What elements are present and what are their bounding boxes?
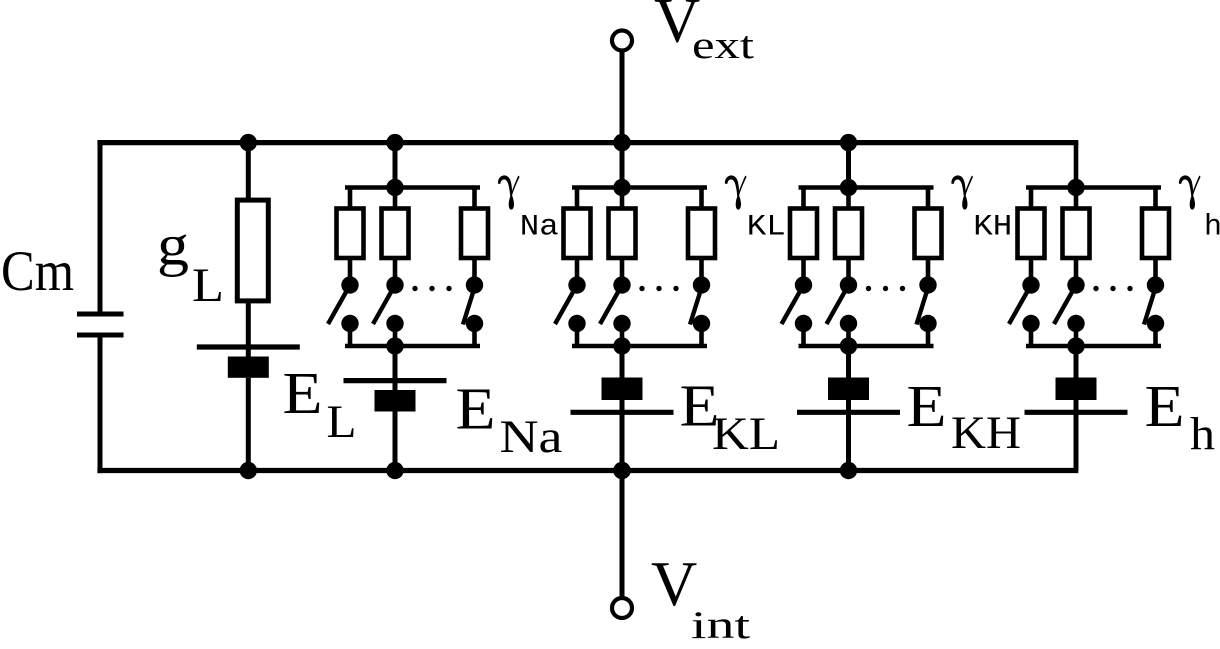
node: V_ext junction on top bus [613, 134, 630, 151]
terminal V_ext open circle [612, 31, 632, 51]
wire: V_ext terminal to top bus [620, 51, 625, 143]
svg-text:KH: KH [973, 210, 1012, 244]
wire: sub-bus drop to resistor h1 [1029, 188, 1034, 211]
wire: block KL top sub-bus [572, 185, 707, 190]
switch Sh1 [1009, 276, 1040, 332]
wire: bottom bus V_int rail [97, 468, 1078, 473]
node: block KL on top bus [613, 134, 630, 151]
wire: switch KL2 to bottom sub-bus [620, 324, 625, 347]
svg-text:E: E [907, 373, 947, 439]
wire: sub-bus drop to resistor h2 [1074, 188, 1079, 211]
resistor gamma_Na unit 2 [382, 209, 409, 259]
node: block KH top sub-bus junction [840, 179, 857, 196]
capacitor Cm plates [77, 314, 124, 335]
wire: block KH bottom sub-bus [799, 344, 934, 349]
resistor gamma_Na unit 1 [337, 209, 364, 259]
switch SKH1 [782, 276, 813, 332]
battery E_Na (long plate up, thick plate down) [344, 381, 447, 412]
svg-text:L: L [327, 396, 357, 448]
label V_ext [654, 0, 754, 67]
svg-text:E: E [456, 376, 496, 442]
resistor gamma_KL unit 1 [564, 209, 591, 259]
wire: bottom bus to V_int terminal [620, 471, 625, 599]
label gamma_KH [951, 175, 1012, 244]
wire: block Na top sub-bus [345, 185, 480, 190]
switch SKH3 [917, 276, 937, 332]
wire: battery E_KL to bottom bus [620, 399, 625, 471]
label g_L [157, 213, 224, 312]
wire: switch KL3 to bottom sub-bus [699, 324, 704, 347]
resistor gamma_KH unit 1 [790, 209, 817, 259]
svg-text:KL: KL [747, 210, 786, 244]
svg-text:h: h [1190, 409, 1215, 461]
resistor gamma_Na unit 3 [461, 209, 488, 259]
node: block h top sub-bus junction [1067, 179, 1084, 196]
label E_h [1145, 373, 1216, 461]
switch SKL3 [690, 276, 710, 332]
switch SKL2 [600, 276, 631, 332]
resistor gamma_h unit 1 [1018, 209, 1045, 259]
wire: resistor h1 to switch h1 [1029, 258, 1034, 285]
wire: resistor KL1 to switch KL1 [575, 258, 580, 285]
node: block h bottom sub-bus junction [1067, 337, 1084, 354]
svg-text:KL: KL [712, 408, 780, 460]
svg-text:E: E [283, 360, 323, 426]
node: block KL top sub-bus junction [613, 179, 630, 196]
wire: switch KH3 to bottom sub-bus [926, 324, 931, 347]
wire: switch KH1 to bottom sub-bus [801, 324, 806, 347]
wire: sub-bus to battery E_KH [846, 346, 851, 378]
label E_KH [907, 373, 1022, 459]
switch SNa2 [373, 276, 404, 332]
node: block Na on bottom bus [386, 462, 403, 479]
battery E_h (thick plate up, long plate down) [1025, 378, 1128, 413]
wire: block Na bottom sub-bus [345, 344, 480, 349]
svg-text:g: g [157, 213, 189, 278]
node: block KH on top bus [840, 134, 857, 151]
wire: battery E_L to bottom bus [246, 378, 251, 471]
ellipsis dots (more units) in block KH [866, 286, 905, 291]
node: block Na top sub-bus junction [386, 179, 403, 196]
wire: resistor KH1 to switch KH1 [801, 258, 806, 285]
wire: switch Na3 to bottom sub-bus [472, 324, 477, 347]
wire: sub-bus drop to resistor Na3 [472, 188, 477, 211]
wire: switch KH2 to bottom sub-bus [846, 324, 851, 347]
switch SNa1 [328, 276, 359, 332]
wire: sub-bus drop to resistor KL3 [699, 188, 704, 211]
wire: block h top sub-bus [1026, 185, 1161, 190]
wire: sub-bus to battery E_Na [393, 346, 398, 391]
wire: resistor h2 to switch h2 [1074, 258, 1079, 285]
switch SKH2 [827, 276, 858, 332]
label gamma_KL [725, 175, 786, 244]
wire: switch h1 to bottom sub-bus [1029, 324, 1034, 347]
wire: resistor KL3 to switch KL3 [699, 258, 704, 285]
wire: block h bottom sub-bus [1026, 344, 1161, 349]
wire: sub-bus drop to resistor KH3 [926, 188, 931, 211]
wire: resistor KH3 to switch KH3 [926, 258, 931, 285]
wire: resistor h3 to switch h3 [1153, 258, 1158, 285]
wire: switch Na2 to bottom sub-bus [393, 324, 398, 347]
svg-text:h: h [1204, 210, 1220, 244]
label gamma_h [1179, 175, 1220, 244]
label E_L [283, 360, 357, 448]
label E_KL [680, 373, 781, 460]
wire: top bus to block h sub-bus [1074, 143, 1079, 188]
switch SNa3 [463, 276, 483, 332]
battery E_KH (thick plate up, long plate down) [797, 378, 900, 413]
node: block KL on bottom bus [613, 462, 630, 479]
wire: sub-bus drop to resistor KL1 [575, 188, 580, 211]
wire: capacitor Cm to bottom bus [98, 338, 103, 474]
wire: block KH top sub-bus [799, 185, 934, 190]
switch SKL1 [555, 276, 586, 332]
wire: sub-bus drop to resistor Na2 [393, 188, 398, 211]
svg-text:KH: KH [951, 407, 1021, 459]
ellipsis dots (more units) in block KL [639, 286, 678, 291]
wire: battery E_KH to bottom bus [846, 399, 851, 471]
wire: left edge top (bus to capacitor Cm) [98, 140, 103, 312]
wire: battery E_h to bottom bus [1074, 399, 1079, 471]
svg-text:L: L [192, 259, 224, 312]
node: block KL bottom sub-bus junction [613, 337, 630, 354]
wire: top bus to block Na sub-bus [393, 143, 398, 188]
svg-text:int: int [691, 604, 750, 644]
ellipsis dots (more units) in block Na [412, 286, 451, 291]
wire: top bus to resistor g_L [246, 143, 251, 200]
battery E_L (long plate up, thick plate down) [197, 347, 300, 378]
wire: switch KL1 to bottom sub-bus [575, 324, 580, 347]
wire: resistor KH2 to switch KH2 [846, 258, 851, 285]
resistor g_L [237, 200, 268, 301]
wire: switch h2 to bottom sub-bus [1074, 324, 1079, 347]
wire: sub-bus drop to resistor KH1 [801, 188, 806, 211]
label Cm [1, 240, 74, 303]
wire: top bus to block KL sub-bus [620, 143, 625, 188]
resistor gamma_KL unit 2 [609, 209, 636, 259]
node: V_int junction on bottom bus [613, 462, 630, 479]
resistor gamma_KH unit 3 [915, 209, 942, 259]
node: block Na bottom sub-bus junction [386, 337, 403, 354]
svg-text:ext: ext [692, 24, 754, 67]
resistor gamma_h unit 3 [1142, 209, 1169, 259]
wire: resistor KL2 to switch KL2 [620, 258, 625, 285]
wire: resistor Na2 to switch Na2 [393, 258, 398, 285]
node: block Na on top bus [386, 134, 403, 151]
svg-text:Na: Na [500, 411, 563, 463]
label V_int [651, 548, 750, 647]
node: g_L branch on bottom bus [240, 462, 257, 479]
wire: sub-bus drop to resistor h3 [1153, 188, 1158, 211]
wire: resistor Na3 to switch Na3 [472, 258, 477, 285]
ellipsis dots (more units) in block h [1093, 286, 1132, 291]
wire: switch h3 to bottom sub-bus [1153, 324, 1158, 347]
wire: resistor Na1 to switch Na1 [348, 258, 353, 285]
label E_Na [456, 376, 563, 464]
wire: switch Na1 to bottom sub-bus [348, 324, 353, 347]
switch Sh2 [1054, 276, 1085, 332]
wire: top bus V_ext rail [97, 140, 1078, 145]
wire: battery E_Na to bottom bus [393, 412, 398, 471]
terminal V_int open circle [612, 598, 632, 618]
wire: sub-bus drop to resistor KL2 [620, 188, 625, 211]
svg-text:E: E [1145, 373, 1185, 439]
wire: block KL bottom sub-bus [572, 344, 707, 349]
node: block KH on bottom bus [840, 462, 857, 479]
resistor gamma_KL unit 3 [688, 209, 715, 259]
wire: resistor g_L to battery E_L [246, 301, 251, 358]
svg-text:Na: Na [520, 210, 559, 244]
node: block KH bottom sub-bus junction [840, 337, 857, 354]
battery E_KL (thick plate up, long plate down) [571, 378, 674, 413]
label gamma_Na [498, 175, 559, 244]
switch Sh3 [1144, 276, 1164, 332]
wire: sub-bus to battery E_KL [620, 346, 625, 378]
wire: sub-bus drop to resistor KH2 [846, 188, 851, 211]
node: g_L branch on top bus [240, 134, 257, 151]
resistor gamma_h unit 2 [1063, 209, 1090, 259]
wire: sub-bus drop to resistor Na1 [348, 188, 353, 211]
wire: sub-bus to battery E_h [1074, 346, 1079, 378]
resistor gamma_KH unit 2 [835, 209, 862, 259]
svg-text:Cm: Cm [1, 240, 74, 303]
wire: top bus to block KH sub-bus [846, 143, 851, 188]
